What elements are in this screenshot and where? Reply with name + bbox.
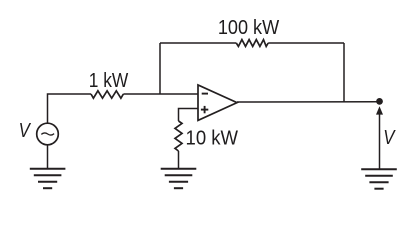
- wire input from source to R1: [48, 94, 92, 123]
- resistor R2 100 kW zigzag: [236, 40, 268, 47]
- ground (right): [361, 169, 397, 189]
- svg-text:V: V: [383, 127, 396, 149]
- node output dot: [376, 98, 383, 105]
- svg-text:100 kW: 100 kW: [218, 17, 279, 39]
- wire feedback right vertical: [343, 43, 345, 102]
- ground (left): [30, 169, 66, 189]
- ground (middle): [161, 169, 197, 189]
- resistor R3 10 kW vertical zigzag: [175, 121, 182, 151]
- wire top left to R2: [160, 42, 236, 44]
- source V1 (AC): [37, 123, 59, 145]
- wire op-amp output to node: [237, 101, 380, 103]
- resistor R1 1 kW zigzag: [91, 91, 123, 98]
- wire R1 to op-amp inverting input: [123, 93, 198, 95]
- op-amp U1: [198, 85, 237, 120]
- svg-text:V: V: [19, 120, 32, 142]
- wire R3 to ground: [178, 151, 180, 169]
- wire source bottom to ground: [47, 145, 49, 169]
- wire feedback left vertical: [159, 43, 161, 94]
- arrow up at output: [376, 106, 383, 114]
- wire op-amp non-inverting input: [179, 109, 199, 122]
- svg-text:10 kW: 10 kW: [186, 128, 239, 150]
- wire output arrow vertical: [379, 113, 381, 170]
- wire R2 to right vertical: [268, 42, 344, 44]
- svg-text:1 kW: 1 kW: [89, 70, 129, 92]
